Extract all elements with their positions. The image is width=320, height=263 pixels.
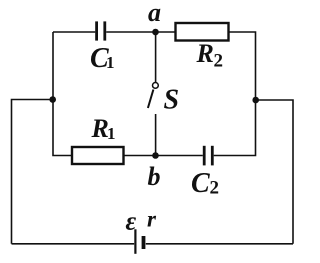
node a: [152, 29, 159, 36]
label C2: [191, 168, 219, 199]
switch S: [148, 83, 158, 109]
wire switch lower: [155, 114, 157, 156]
label R2: [196, 39, 224, 72]
wire bottom-right segment: [146, 243, 293, 245]
wire top-middle segment: [106, 31, 175, 33]
node left junction: [49, 96, 56, 103]
wire b to C2: [156, 155, 203, 157]
capacitor C1: [97, 21, 105, 40]
resistor R1: [72, 147, 124, 164]
wire switch upper: [155, 32, 157, 82]
battery cell (emf): [135, 229, 143, 254]
wire top-left segment: [53, 31, 95, 33]
svg-text:ε: ε: [126, 207, 137, 236]
svg-text:S: S: [164, 85, 180, 116]
resistor R2: [176, 23, 229, 41]
svg-text:R: R: [196, 39, 214, 68]
wire right inner vertical lower: [214, 100, 256, 156]
wire left connector: [12, 100, 53, 244]
wire top-right segment: [229, 32, 256, 100]
wire R1 right to b: [124, 155, 156, 157]
wire right connector: [256, 100, 293, 244]
svg-text:1: 1: [106, 53, 115, 72]
svg-text:2: 2: [214, 51, 224, 72]
svg-text:1: 1: [107, 124, 116, 143]
svg-text:a: a: [148, 0, 161, 27]
node right junction: [252, 97, 259, 104]
label R1: [91, 114, 116, 143]
wire bottom-left segment: [12, 243, 135, 245]
capacitor C2: [204, 146, 212, 166]
svg-text:C: C: [191, 168, 210, 199]
wire left inner vertical: [53, 32, 72, 156]
node b: [152, 152, 159, 159]
svg-text:r: r: [147, 207, 157, 232]
svg-text:2: 2: [210, 178, 220, 199]
svg-text:b: b: [148, 162, 161, 191]
label C1: [90, 43, 115, 74]
